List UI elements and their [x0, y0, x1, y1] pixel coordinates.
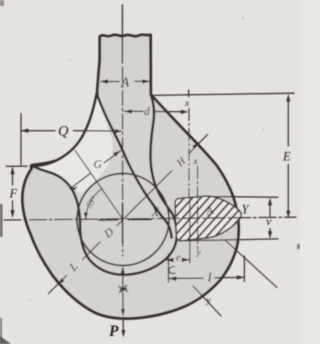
Q extension line — [20, 114, 22, 166]
55 degree construction ray — [75, 150, 123, 219]
svg-text:d: d — [144, 106, 150, 118]
thickness arrow up at inner circle bottom — [121, 266, 125, 273]
z squiggle label on load line — [119, 286, 128, 293]
x axis line 2 — [197, 167, 199, 250]
dimension d — [124, 110, 186, 112]
svg-text:v: v — [266, 214, 272, 228]
vertical centerline (shank axis) — [121, 5, 123, 63]
hatched cross-section — [175, 196, 241, 241]
beak top edge (branch A) restroke — [31, 93, 96, 166]
svg-text:X: X — [151, 205, 161, 219]
L-H 45 degree diagonal through center — [49, 135, 208, 294]
F top extension — [6, 165, 27, 167]
center cross emphasis — [99, 218, 151, 221]
inner construction circle D — [77, 174, 169, 266]
x axis line 1 (centroid axis) — [188, 90, 190, 97]
dimension e — [166, 259, 189, 261]
svg-text:y: y — [196, 248, 202, 258]
svg-text:A: A — [120, 75, 130, 90]
dimension E — [287, 96, 289, 216]
top extension line — [152, 93, 295, 95]
dimension I — [170, 277, 244, 278]
svg-text:G: G — [94, 159, 103, 171]
svg-text:F: F — [9, 187, 18, 201]
svg-text:y: y — [206, 296, 212, 306]
dimension Q — [21, 130, 121, 133]
svg-text:x: x — [193, 157, 199, 167]
dimension G (radial) — [70, 151, 121, 189]
I extension lines — [243, 256, 245, 282]
diagonal across section (cutting plane) — [226, 241, 278, 288]
inner throat heavy curve (S-curve, throat bottom, beak underside) — [32, 95, 177, 275]
wire — [122, 268, 124, 310]
svg-text:x: x — [184, 99, 190, 109]
dimension U — [269, 200, 271, 237]
svg-text:P: P — [109, 323, 119, 340]
hook body outer profile (filled silhouette incl. shank and beak) — [22, 35, 238, 319]
dimension F — [12, 168, 14, 216]
short diagonal lower-right with y — [193, 286, 221, 316]
arrow P down — [121, 330, 125, 338]
load line P lower part — [122, 319, 124, 332]
white gape slot between shank and beak — [32, 94, 113, 194]
limb inner edge (branch B) — [97, 94, 172, 239]
svg-text:e: e — [176, 253, 181, 264]
svg-text:I: I — [207, 271, 213, 285]
svg-text:E: E — [282, 150, 291, 164]
small curl mark — [169, 267, 175, 274]
svg-text:Q: Q — [58, 124, 69, 140]
angle arc with arrow — [86, 189, 102, 219]
U extension lines — [214, 196, 278, 199]
horizontal centerline — [4, 217, 296, 220]
dimension A — [101, 80, 149, 82]
thickness arrow down at outer bottom — [121, 309, 125, 317]
